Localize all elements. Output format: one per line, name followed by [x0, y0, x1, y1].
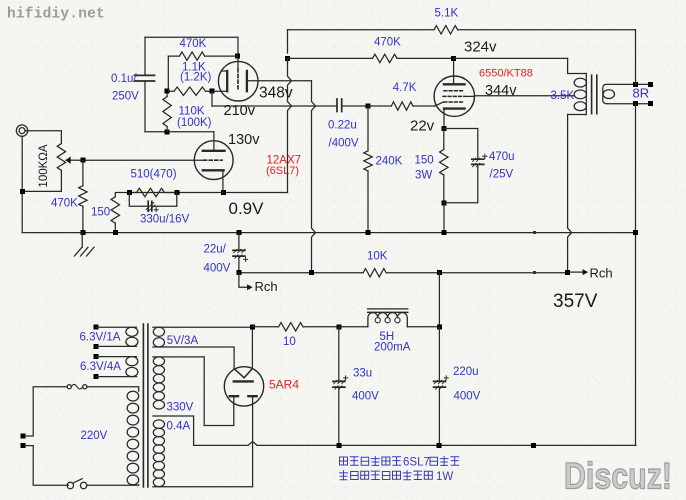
node 22u top junction [236, 230, 241, 235]
V3 cathode bar [234, 380, 253, 382]
capacitor 330u/16V bypass loop [129, 193, 177, 212]
svg-text:210v: 210v [224, 103, 256, 119]
wire cathode 0.9V line [129, 192, 288, 194]
T1 winding 6.3V/4A [96, 357, 138, 377]
node 6.3V/4A terminal bottom [94, 374, 99, 379]
wire right edge feedback drop [635, 30, 637, 85]
wire plate line to OPT [454, 57, 568, 59]
V1b cathode bottom wire [212, 90, 227, 92]
node 510 right [174, 190, 179, 195]
svg-text:3W: 3W [415, 170, 432, 182]
node 1.1K right junction [210, 89, 215, 94]
svg-text:10: 10 [283, 336, 296, 348]
node 510 left [127, 190, 132, 195]
svg-text:400V: 400V [352, 391, 379, 403]
capacitor 0.1u/250V [135, 37, 155, 132]
wire pot bottom lead [23, 170, 62, 191]
svg-text:0.22u: 0.22u [328, 120, 357, 132]
svg-text:240K: 240K [376, 156, 403, 168]
output transformer T2 primary top lead [568, 58, 587, 73]
wire T2 primary bottom to B+ with hop [568, 115, 572, 273]
wire HV top lead to left plate [153, 357, 234, 426]
resistor 10 ohm [279, 323, 304, 331]
wire mains upper lead [25, 387, 67, 436]
note line2 Chinese [340, 471, 454, 483]
V1b grid dashed [237, 69, 239, 90]
Rch tap left arrow [239, 273, 253, 291]
T1 winding 330V upper half [153, 357, 164, 409]
V1a cathode lead [222, 170, 224, 192]
stray dot lower [533, 271, 536, 274]
svg-text:220u: 220u [453, 366, 479, 378]
T1 winding 6.3V/1A [96, 327, 138, 346]
V3 left plate [230, 395, 238, 397]
svg-text:130v: 130v [228, 132, 260, 148]
T2 primary bottom lead [568, 114, 587, 116]
wire jack to pot top [25, 131, 61, 144]
svg-text:470K: 470K [374, 37, 401, 49]
node 6550 grid junction [366, 104, 371, 109]
wire 0.22u to grid node [342, 105, 368, 107]
svg-text:hifidiy.net: hifidiy.net [7, 7, 105, 23]
svg-text:Rch: Rch [590, 266, 613, 281]
wire 5.1K feedback top line [288, 29, 636, 31]
node 6.3V/4A terminal top [94, 354, 99, 359]
rectifier V3 5AR4 envelope [224, 367, 263, 406]
svg-text:8R: 8R [633, 86, 650, 101]
wire V1b cathode down to 210v line [211, 91, 213, 106]
svg-text:470K: 470K [180, 38, 207, 50]
capacitor 220u/400V filter [434, 327, 449, 446]
svg-text:(6SL7): (6SL7) [266, 165, 299, 177]
resistor 470K V1b grid leak [168, 52, 237, 60]
svg-text:510(470): 510(470) [131, 169, 177, 181]
V2 cathode [444, 107, 465, 109]
svg-text:/25V: /25V [490, 169, 514, 181]
V2 plate lead [453, 58, 455, 84]
svg-text:22u/: 22u/ [204, 244, 227, 256]
T2 core [592, 75, 597, 114]
wire mains lower lead [25, 446, 68, 486]
V3 filament [234, 369, 252, 378]
svg-text:220V: 220V [81, 430, 108, 442]
V1a plate lead [213, 132, 215, 151]
fuse F1 [67, 384, 87, 389]
node 1.1K left junction [165, 89, 170, 94]
svg-text:400V: 400V [204, 263, 231, 275]
svg-text:100KΩA: 100KΩA [38, 144, 50, 187]
node right edge ground junction [633, 230, 638, 235]
svg-text:1W: 1W [436, 471, 453, 483]
switch S1 [67, 479, 87, 489]
svg-text:Discuz!: Discuz! [564, 456, 672, 497]
node secondary bottom terminal [633, 101, 638, 106]
V1a cathode [203, 169, 224, 171]
wire HV bottom lead to right plate [153, 396, 253, 487]
svg-text:250V: 250V [112, 91, 139, 103]
triode V1b envelope [218, 61, 258, 101]
potentiometer 100K-A [57, 144, 65, 171]
wire choke to 220u [407, 326, 439, 328]
V1b cathode [226, 71, 228, 91]
wire 33u to choke segment [339, 326, 368, 328]
svg-text:150: 150 [415, 155, 434, 167]
V1b plate lead [247, 80, 312, 82]
T2 secondary winding [603, 84, 651, 103]
wire PSU ground bus with hop [194, 441, 636, 445]
wire fuse to primary [87, 387, 139, 392]
V1b cathode top stub [221, 70, 227, 72]
svg-text:0.1u/: 0.1u/ [111, 73, 137, 85]
node stray PSU ground square [531, 443, 536, 448]
resistor 4.7K grid stopper [368, 102, 435, 110]
pot wiper arrow [66, 156, 77, 164]
V1a plate [203, 150, 225, 152]
svg-text:357V: 357V [553, 291, 598, 312]
wire HV center tap to ground [153, 416, 194, 445]
Rch tap right arrow [570, 269, 588, 275]
resistor 470K grid return [79, 160, 87, 232]
svg-text:22v: 22v [410, 118, 435, 135]
resistor 150 3W cathode [440, 129, 448, 203]
resistor 110K(100K) plate load [163, 91, 171, 132]
svg-text:324v: 324v [464, 39, 497, 56]
node 220u ground junction [436, 443, 441, 448]
resistor 10K decoupling [363, 269, 386, 277]
wire jack ground drop [21, 136, 23, 232]
svg-text:/400V: /400V [329, 138, 359, 150]
ground symbol [75, 233, 95, 256]
node 240K ground junction [366, 230, 371, 235]
node 220u top junction [437, 324, 442, 329]
T2 primary coils [574, 78, 586, 110]
wire B+ 357V bus [239, 272, 568, 274]
V1a grid dashed [204, 159, 223, 161]
ground bus wire [23, 232, 636, 234]
resistor 5.1K feedback [434, 26, 458, 34]
node V1a cathode junction [221, 190, 226, 195]
svg-text:470K: 470K [51, 198, 78, 210]
wire top coupling to V1b grid [145, 37, 238, 69]
resistor 240K grid leak [364, 106, 372, 232]
V2 grid3 dashed [444, 90, 465, 92]
node mains terminal lower [20, 443, 25, 448]
wire 210v line to coupling cap [212, 105, 337, 107]
svg-text:330V: 330V [167, 402, 194, 414]
node B+ right end junction [565, 270, 570, 275]
node 22u B+ junction [236, 270, 241, 275]
V2 cathode lead [443, 109, 445, 129]
T2 primary spine [585, 74, 587, 115]
note line1 Chinese [340, 457, 459, 469]
node wiper junction [80, 158, 85, 163]
svg-text:33u: 33u [353, 368, 372, 380]
capacitor 33u/400V filter [333, 327, 348, 446]
T1 core [143, 324, 148, 487]
node V1b grid junction [235, 54, 240, 59]
node secondary top output terminal [648, 82, 653, 87]
svg-text:6SL7: 6SL7 [403, 457, 430, 469]
wire right edge secondary to ground [635, 104, 637, 445]
capacitor 0.22u/400V coupling [337, 99, 342, 112]
svg-text:344v: 344v [485, 83, 517, 99]
node PSU B+ riser junction [437, 270, 442, 275]
node 150 ground junction [113, 230, 118, 235]
svg-text:5.1K: 5.1K [435, 8, 459, 20]
svg-text:330u/16V: 330u/16V [140, 214, 190, 226]
node secondary bottom output terminal [648, 101, 653, 106]
svg-text:(100K): (100K) [177, 117, 212, 129]
T1 primary 220V winding [127, 391, 139, 485]
svg-text:0.4A: 0.4A [167, 421, 191, 433]
node feedback junction [285, 56, 290, 61]
svg-text:(1.2K): (1.2K) [180, 72, 211, 84]
node 6.3V/1A terminal top [94, 325, 99, 330]
resistor 510(470) [129, 188, 177, 196]
choke L1 5H 200mA [368, 309, 408, 327]
svg-text:110K: 110K [179, 106, 205, 118]
svg-text:10K: 10K [367, 251, 388, 263]
pentode V2 6550/KT88 envelope [434, 76, 474, 116]
V3 right plate [248, 395, 256, 397]
node line2 B+ junction [309, 270, 314, 275]
wire grid of V1a from wiper [77, 159, 204, 161]
V1b plate [246, 71, 248, 91]
capacitor 470u/25V bypass [444, 129, 487, 203]
wire 470K left drop [167, 56, 169, 91]
svg-text:200mA: 200mA [374, 342, 411, 354]
wire feedback node riser [287, 30, 289, 64]
node secondary top terminal [633, 82, 638, 87]
wire PSU B+ riser [438, 273, 440, 327]
triode V1a 12AX7 envelope [194, 141, 233, 180]
V2 screen exit wire to OPT tap [465, 95, 575, 98]
wire PSU B+ line [252, 326, 338, 328]
V3 filament right lead B+ [251, 327, 253, 369]
V2 plate [444, 83, 465, 85]
svg-text:0.9V: 0.9V [229, 199, 265, 218]
node V2 cathode junction [442, 126, 447, 131]
stray dot upper [533, 231, 536, 234]
svg-text:6550/KT88: 6550/KT88 [479, 68, 533, 80]
wire 5V top lead B+ start [153, 326, 253, 328]
svg-text:348v: 348v [259, 85, 293, 102]
svg-text:Rch: Rch [255, 279, 278, 294]
node 6.3V/1A terminal bottom [94, 344, 99, 349]
node 33u top junction [336, 324, 341, 329]
svg-text:3.5K: 3.5K [551, 90, 575, 102]
wire switch to primary [87, 484, 139, 487]
wire plate node of V1a [145, 131, 214, 133]
node mains terminal upper [20, 434, 25, 439]
svg-text:6.3V/4A: 6.3V/4A [80, 361, 121, 373]
svg-text:5AR4: 5AR4 [269, 378, 299, 392]
svg-text:6.3V/1A: 6.3V/1A [80, 332, 121, 344]
svg-text:150: 150 [91, 207, 110, 219]
svg-text:4.7K: 4.7K [393, 82, 417, 94]
node pot bottom junction [20, 189, 25, 194]
wire 5V bottom lead to filament [153, 347, 234, 369]
resistor 470K plate-feedback [288, 54, 454, 62]
node cathode bottom junction [442, 200, 447, 205]
wire cathode to ground bus [443, 203, 445, 233]
resistor 1.1K(1.2K) V1b bias [167, 87, 212, 95]
node V2 plate junction [451, 56, 456, 61]
wire line1 feedback drop with hops [288, 58, 292, 192]
node 33u ground junction [337, 443, 342, 448]
svg-text:470u: 470u [489, 151, 515, 163]
input jack J1 [16, 125, 27, 136]
V2 grid2 dashed [443, 95, 465, 97]
T1 winding 5V/3A [153, 327, 164, 347]
T1 winding 330V lower half [153, 420, 164, 487]
node cathode ground junction [442, 230, 447, 235]
svg-text:5V/3A: 5V/3A [167, 335, 199, 347]
svg-text:400V: 400V [454, 391, 481, 403]
V2 grid1 dashed [444, 101, 465, 103]
node B+ takeoff junction [250, 324, 255, 329]
wire line2 V1b plate drop with hops [312, 81, 316, 273]
capacitor 22u/400V decoupling [233, 233, 248, 273]
V2 grid1 entry lead [435, 102, 444, 106]
resistor 150 cathode [111, 193, 129, 233]
node 470K ground junction [81, 230, 86, 235]
node 110K bottom junction [165, 129, 170, 134]
